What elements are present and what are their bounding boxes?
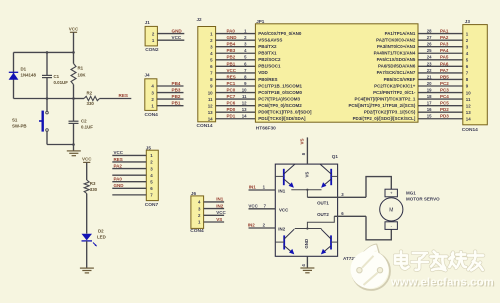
watermark chinese text (drawn glyphs) (395, 252, 483, 271)
wire J2 pin11 to JP1 pin11 (216, 98, 256, 100)
svg-text:PA0: PA0 (114, 177, 123, 182)
svg-text:R2: R2 (87, 91, 93, 96)
transistor T1 (top-left) (275, 164, 295, 188)
svg-text:PC3: PC3 (440, 87, 449, 92)
svg-text:0.1UF: 0.1UF (81, 124, 93, 129)
wire VS stub (top pin 8) (306, 137, 308, 164)
svg-text:PC5/[INT1]/TP0_1/TP1B_2/(SCS): PC5/[INT1]/TP0_1/TP1B_2/(SCS) (348, 103, 415, 108)
wire IN1 pin 1 (249, 189, 276, 191)
svg-text:VS: VS (216, 217, 222, 222)
svg-text:11: 11 (242, 94, 247, 99)
svg-text:PA0/C0X/TP0_0/AN0: PA0/C0X/TP0_0/AN0 (258, 31, 302, 36)
svg-text:MG1: MG1 (406, 191, 416, 196)
svg-text:VCC: VCC (279, 207, 289, 212)
capacitor C1 (42, 74, 52, 76)
svg-text:PD3: PD3 (440, 114, 449, 119)
svg-text:13: 13 (208, 110, 213, 115)
wire J2 pin9 to JP1 pin9 (216, 85, 256, 87)
wire JP1 pin15 to J3 pin14 (418, 118, 463, 120)
svg-text:GND: GND (227, 35, 238, 40)
svg-text:PA1/TP1A/AN1: PA1/TP1A/AN1 (385, 31, 416, 36)
svg-text:PC7: PC7 (227, 94, 236, 99)
wire J2 pin14 to JP1 pin14 (216, 118, 256, 120)
svg-text:14: 14 (208, 116, 213, 121)
svg-text:M: M (389, 208, 393, 214)
svg-text:VSS&AVSS: VSS&AVSS (258, 37, 282, 42)
svg-text:HT66F30: HT66F30 (256, 126, 276, 132)
wire JP1 pin26 to J3 pin3 (418, 46, 463, 48)
svg-text:21: 21 (427, 74, 432, 79)
LED D2 (82, 234, 97, 247)
svg-text:13: 13 (466, 110, 471, 115)
svg-text:J4: J4 (145, 73, 151, 78)
svg-text:14: 14 (466, 116, 471, 121)
wire S1 bottom to ground rail (46, 131, 48, 144)
svg-text:PB2: PB2 (227, 55, 236, 60)
svg-text:PA7: PA7 (440, 68, 449, 73)
svg-text:VCC: VCC (172, 35, 182, 40)
wire JP1 pin20 to J3 pin9 (418, 85, 463, 87)
svg-text:16: 16 (427, 107, 432, 112)
wire J6 VS (204, 221, 225, 223)
svg-text:PD0: PD0 (227, 107, 236, 112)
svg-text:+: + (390, 191, 393, 196)
svg-text:VCC: VCC (114, 150, 124, 155)
svg-text:GND: GND (172, 28, 183, 33)
svg-text:PC2/TCK2/PCK/C1+: PC2/TCK2/PCK/C1+ (374, 83, 416, 88)
svg-text:www.elecfans.com: www.elecfans.com (390, 277, 494, 289)
svg-text:10K: 10K (78, 72, 87, 77)
wire JP1 pin27 to J3 pin2 (418, 39, 463, 41)
wire J1 pin2 (157, 33, 184, 35)
wire JP1 pin25 to J3 pin4 (418, 52, 463, 54)
svg-text:15: 15 (427, 114, 432, 119)
svg-text:PD1/[TCK0]/[SDI/SDA]: PD1/[TCK0]/[SDI/SDA] (258, 116, 306, 121)
wire J2 pin8 to JP1 pin8 (216, 78, 256, 80)
svg-text:PA0: PA0 (227, 29, 236, 34)
wire JP1 pin24 to J3 pin5 (418, 59, 463, 61)
motor MG1 MOTOR SERVO (380, 189, 403, 229)
svg-text:CON4: CON4 (145, 112, 159, 118)
svg-text:PB2: PB2 (172, 94, 181, 99)
svg-text:330: 330 (87, 101, 95, 106)
svg-text:C2: C2 (81, 119, 87, 124)
svg-text:OUT2: OUT2 (317, 212, 329, 217)
wire OUT2 to motor (366, 216, 391, 240)
svg-text:11: 11 (466, 97, 471, 102)
svg-text:PA5/C1X/SDO/AN5: PA5/C1X/SDO/AN5 (377, 57, 416, 62)
svg-text:PB4/TX2: PB4/TX2 (258, 44, 277, 49)
wire OUT2 internal staircase (307, 216, 334, 228)
watermark logo circle (351, 244, 391, 290)
svg-text:PA7/SCK/SCL/AN7: PA7/SCK/SCL/AN7 (377, 70, 416, 75)
svg-text:CON4: CON4 (190, 228, 204, 234)
svg-text:25: 25 (427, 48, 432, 53)
svg-text:PB1: PB1 (227, 61, 236, 66)
svg-text:D2: D2 (98, 228, 104, 233)
svg-text:PA4/INT1/TCK1/AN4: PA4/INT1/TCK1/AN4 (374, 51, 416, 56)
svg-text:330: 330 (90, 187, 98, 192)
svg-text:R1: R1 (78, 65, 84, 70)
svg-text:24: 24 (427, 55, 432, 60)
svg-text:PC1: PC1 (227, 81, 236, 86)
ground (H-bridge) (300, 267, 314, 269)
switch S1 SW-PB (39, 111, 48, 132)
wire R3 to LED (86, 194, 88, 234)
svg-text:MOTOR SERVO: MOTOR SERVO (406, 196, 440, 201)
wire JP1 pin23 to J3 pin6 (418, 65, 463, 67)
wire J5 pin6 (112, 187, 146, 189)
transistor T2 (top-right) (320, 164, 338, 188)
svg-text:PB4: PB4 (172, 81, 181, 86)
svg-text:SW-PB: SW-PB (12, 124, 27, 129)
resistor R1 (73, 52, 75, 63)
svg-text:GND: GND (304, 239, 309, 249)
resistor R2 (74, 98, 85, 100)
svg-text:PC3/PINT/TP2_0/C1-: PC3/PINT/TP2_0/C1- (373, 90, 416, 95)
svg-text:PB5: PB5 (440, 74, 449, 79)
wire OUT1 to motor (366, 177, 391, 198)
svg-text:PB2/SOC2: PB2/SOC2 (258, 57, 281, 62)
svg-text:PD2: PD2 (440, 107, 449, 112)
svg-text:CON14: CON14 (197, 123, 213, 129)
wire J1 pin1 (157, 39, 184, 41)
svg-text:LED: LED (97, 235, 106, 240)
wire JP1 pin17 to J3 pin12 (418, 105, 463, 107)
wire J2 pin12 to JP1 pin12 (216, 105, 256, 107)
wire mid rail (14, 98, 74, 100)
capacitor C2 (73, 99, 75, 122)
wire J6 VCC (204, 214, 225, 216)
svg-text:22: 22 (427, 68, 432, 73)
svg-text:R3: R3 (90, 181, 96, 186)
svg-text:CON14: CON14 (462, 127, 478, 133)
svg-text:PA3: PA3 (440, 42, 449, 47)
svg-text:23: 23 (427, 61, 432, 66)
wire OUT2 pin 6 (334, 215, 366, 217)
svg-text:IN2: IN2 (248, 223, 256, 228)
svg-text:PD3/(TP2_0)/[SDO]/[SCK/SCL]: PD3/(TP2_0)/[SDO]/[SCK/SCL] (353, 116, 416, 121)
wire J2 pin2 to JP1 pin2 (216, 39, 256, 41)
svg-text:10: 10 (466, 90, 471, 95)
svg-text:PA2: PA2 (440, 35, 449, 40)
wire J4 PB2 (157, 98, 184, 100)
svg-text:VCC: VCC (216, 210, 226, 215)
wire C1 vertical top (46, 52, 48, 75)
svg-text:28: 28 (427, 29, 432, 34)
svg-text:D1: D1 (21, 66, 27, 71)
wire JP1 pin22 to J3 pin7 (418, 72, 463, 74)
svg-text:PB1/SOC1: PB1/SOC1 (258, 64, 281, 69)
svg-text:IN1: IN1 (278, 189, 285, 194)
svg-text:C1: C1 (54, 74, 60, 79)
svg-text:PC6/(TP0_0)/SCOM2: PC6/(TP0_0)/SCOM2 (258, 103, 302, 108)
svg-text:PB3/TX1: PB3/TX1 (258, 51, 277, 56)
wire JP1 pin18 to J3 pin11 (418, 98, 463, 100)
transistor T3 (bottom-left) (275, 229, 294, 254)
svg-text:PB5/SCS/VREF: PB5/SCS/VREF (384, 77, 416, 82)
svg-text:CON7: CON7 (145, 202, 159, 208)
svg-text:PC6: PC6 (227, 101, 236, 106)
svg-text:12: 12 (208, 103, 213, 108)
svg-text:OUT1: OUT1 (317, 201, 329, 206)
wire J6 IN1 (204, 201, 225, 203)
wire J2 pin6 to JP1 pin6 (216, 65, 256, 67)
svg-text:Q1: Q1 (332, 154, 339, 159)
wire VCC stub down (73, 32, 75, 52)
svg-text:RES: RES (119, 93, 128, 98)
svg-text:PC7/(TP1A)/SCOM3: PC7/(TP1A)/SCOM3 (258, 96, 300, 101)
wire J2 pin1 to JP1 pin1 (216, 33, 256, 35)
svg-text:13: 13 (242, 107, 247, 112)
junction node OUT2 (306, 227, 308, 229)
svg-text:RES: RES (227, 74, 236, 79)
svg-text:18: 18 (427, 94, 432, 99)
svg-text:J2: J2 (197, 17, 203, 22)
svg-text:PC2: PC2 (440, 81, 449, 86)
svg-text:10: 10 (242, 87, 247, 92)
svg-text:0.01UF: 0.01UF (54, 80, 69, 85)
svg-text:26: 26 (427, 42, 432, 47)
svg-text:RES: RES (114, 157, 123, 162)
svg-text:GND: GND (114, 183, 125, 188)
wire J5 pin5 (112, 181, 146, 183)
wire J2 pin13 to JP1 pin13 (216, 111, 256, 113)
wire emitter node (top) (291, 189, 321, 191)
wire GND stub (bottom pin 4) (306, 256, 308, 268)
svg-text:PC5: PC5 (440, 101, 449, 106)
svg-text:11: 11 (208, 97, 213, 102)
wire JP1 pin28 to J3 pin1 (418, 33, 463, 35)
svg-text:12: 12 (242, 101, 247, 106)
svg-text:27: 27 (427, 35, 432, 40)
wire LED to ground (86, 241, 88, 268)
svg-text:PD1: PD1 (227, 114, 236, 119)
wire D1 vertical (13, 52, 15, 98)
svg-text:S1: S1 (12, 117, 18, 122)
svg-text:1N4148: 1N4148 (21, 72, 37, 77)
svg-text:PD2/[TCK2]/TP3_1/(SCS): PD2/[TCK2]/TP3_1/(SCS) (364, 110, 416, 115)
wire J5 pin2 (112, 161, 146, 163)
svg-text:IN2: IN2 (216, 203, 224, 208)
svg-text:PA3/INT0/C0+/AN3: PA3/INT0/C0+/AN3 (377, 44, 416, 49)
svg-text:PC0: PC0 (227, 87, 236, 92)
svg-text:PB3: PB3 (172, 87, 181, 92)
svg-text:PD0/[TCK1]/TP3_0/[SDO]: PD0/[TCK1]/TP3_0/[SDO] (258, 110, 312, 115)
svg-text:IN2: IN2 (278, 226, 285, 231)
svg-text:PA1: PA1 (440, 29, 449, 34)
svg-text:VS: VS (300, 138, 305, 144)
wire OUT1 pin 3 (307, 196, 366, 198)
svg-text:PC4: PC4 (440, 94, 449, 99)
wire J2 pin5 to JP1 pin5 (216, 59, 256, 61)
svg-text:PB0/RES: PB0/RES (258, 77, 277, 82)
svg-text:IN1: IN1 (249, 185, 256, 190)
wire S1 stub (46, 99, 48, 112)
svg-text:20: 20 (427, 81, 432, 86)
svg-text:PA5: PA5 (440, 55, 449, 60)
junction node OUT1 (306, 189, 308, 191)
wire collector node (bottom) (295, 228, 322, 230)
wire J2 pin7 to JP1 pin7 (216, 72, 256, 74)
wire JP1 pin16 to J3 pin13 (418, 111, 463, 113)
wire top rail (14, 51, 74, 53)
svg-text:VCC: VCC (69, 27, 79, 32)
wire OUT1 internal (306, 190, 308, 198)
svg-text:PA2: PA2 (114, 163, 123, 168)
svg-text:PB4: PB4 (227, 42, 236, 47)
svg-text:19: 19 (427, 87, 432, 92)
svg-text:VS: VS (304, 172, 309, 178)
wire IN2 pin 2 (249, 227, 276, 229)
svg-text:VCC: VCC (227, 68, 237, 73)
junction dot C2/ground (72, 143, 75, 146)
svg-text:PC1/TP1B_1/SCOM1: PC1/TP1B_1/SCOM1 (258, 83, 302, 88)
wire JP1 pin21 to J3 pin8 (418, 78, 463, 80)
wire J4 PB3 (157, 92, 184, 94)
ground (reset circuit) (67, 150, 81, 152)
wire VCC pin 7 (249, 208, 276, 210)
svg-text:PA6/SDI/SDA/AN6: PA6/SDI/SDA/AN6 (378, 64, 416, 69)
wire J2 pin4 to JP1 pin4 (216, 52, 256, 54)
svg-text:PA2/TCK0/C0-/AN2: PA2/TCK0/C0-/AN2 (376, 37, 416, 42)
transistor T4 (bottom-right) (321, 229, 338, 254)
wire J5 pin4 (112, 174, 146, 176)
junction dots (72, 51, 75, 54)
wire J6 IN2 (204, 208, 225, 210)
diode D1 (9, 72, 19, 80)
ground (LED branch) (80, 267, 94, 269)
wire J5 pin7 (112, 194, 146, 196)
svg-text:12: 12 (466, 103, 471, 108)
svg-text:CON2: CON2 (145, 47, 159, 53)
svg-text:IN1: IN1 (216, 197, 224, 202)
svg-text:14: 14 (242, 114, 247, 119)
svg-text:PC4/[INT]/(PINT)/TCK3/TP2_1: PC4/[INT]/(PINT)/TCK3/TP2_1 (355, 96, 416, 101)
wire J4 PB4 (157, 85, 184, 87)
svg-text:PA6: PA6 (440, 61, 449, 66)
svg-text:VCC: VCC (82, 157, 92, 162)
wire ground stub (73, 145, 75, 151)
svg-text:VDD: VDD (258, 70, 268, 75)
wire JP1 pin19 to J3 pin10 (418, 92, 463, 94)
svg-text:PC0/TP1B_0/SCOM0: PC0/TP1B_0/SCOM0 (258, 90, 302, 95)
wire C1 vertical bottom (46, 78, 48, 99)
wire VCC to R3 (86, 162, 88, 180)
wire J5 pin3 (112, 168, 146, 170)
svg-text:J3: J3 (465, 19, 471, 24)
svg-text:PA4: PA4 (440, 48, 449, 53)
wire J2 pin3 to JP1 pin3 (216, 46, 256, 48)
svg-text:J1: J1 (145, 20, 151, 25)
svg-text:10: 10 (208, 90, 213, 95)
resistor R3 (84, 180, 89, 194)
wire J2 pin10 to JP1 pin10 (216, 92, 256, 94)
svg-text:VCC: VCC (248, 203, 258, 208)
svg-text:PB1: PB1 (172, 100, 181, 105)
wire J5 pin1 (112, 154, 146, 156)
svg-text:PB3: PB3 (227, 48, 236, 53)
svg-text:17: 17 (427, 101, 432, 106)
wire J4 PB1 (157, 105, 184, 107)
